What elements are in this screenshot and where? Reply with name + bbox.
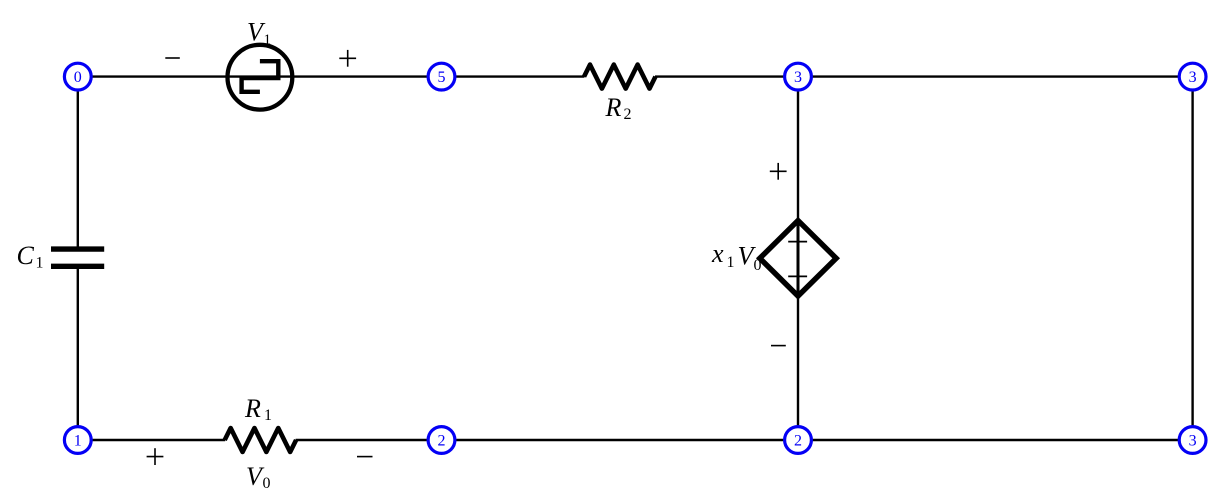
wire bottom rail from node 1 to resistor R1 [78,439,225,441]
dependent source x1V0 (diamond) [760,221,836,297]
label minus (diamond bottom) [771,345,786,347]
svg-text:2: 2 [438,432,446,449]
svg-text:x: x [711,239,724,268]
node 3 (bottom right) [1179,427,1206,454]
svg-text:1: 1 [74,432,82,449]
capacitor C1 [51,249,104,266]
svg-text:0: 0 [74,69,82,86]
label plus (V1 right) [339,50,356,67]
wire bottom rail from R1 to node 3 (bottom right) [296,439,1193,441]
svg-text:R: R [605,93,622,122]
node 1 [64,427,91,454]
wire top rail from R2 to node 3 (top right) [655,75,1193,77]
label C1 [17,241,44,271]
svg-text:2: 2 [624,106,632,123]
svg-text:1: 1 [727,254,735,271]
label V1 [247,17,271,48]
node 2 (bottom middle) [785,427,812,454]
svg-text:0: 0 [754,257,762,274]
svg-text:3: 3 [794,69,802,86]
node 2 (bottom left) [428,427,455,454]
svg-text:C: C [17,241,35,270]
label R2 [605,93,632,123]
label minus (R1 right) [357,456,373,458]
svg-text:1: 1 [264,32,272,48]
label V0 (voltage across R1) [246,462,271,492]
voltage source V1 (square wave source) [228,45,293,110]
svg-text:3: 3 [1189,432,1197,449]
node 0 [64,63,91,90]
svg-text:1: 1 [36,254,44,271]
svg-text:1: 1 [264,407,272,424]
node 5 [428,63,455,90]
label plus (R1 left) [147,448,164,465]
wire middle vertical from node 3 through source to node 2 [797,77,799,440]
wire right side vertical [1191,77,1193,440]
svg-text:R: R [244,394,261,423]
wire left vertical from node 0 to capacitor C1 [77,77,79,247]
wire left vertical from C1 to node 1 [77,269,79,440]
svg-text:5: 5 [438,69,446,86]
node 3 (top middle) [785,63,812,90]
label plus (diamond top) [770,163,787,180]
label minus (V1 left) [165,57,180,59]
node 3 (top right) [1179,63,1206,90]
svg-text:2: 2 [794,432,802,449]
label R1 [244,394,272,424]
wire top rail from node 0 to resistor R2 [78,75,585,77]
resistor R1 [225,428,296,452]
label x1V0 (controlled source gain) [711,239,762,274]
resistor R2 [584,65,655,89]
svg-text:0: 0 [263,475,271,492]
svg-text:3: 3 [1189,69,1197,86]
